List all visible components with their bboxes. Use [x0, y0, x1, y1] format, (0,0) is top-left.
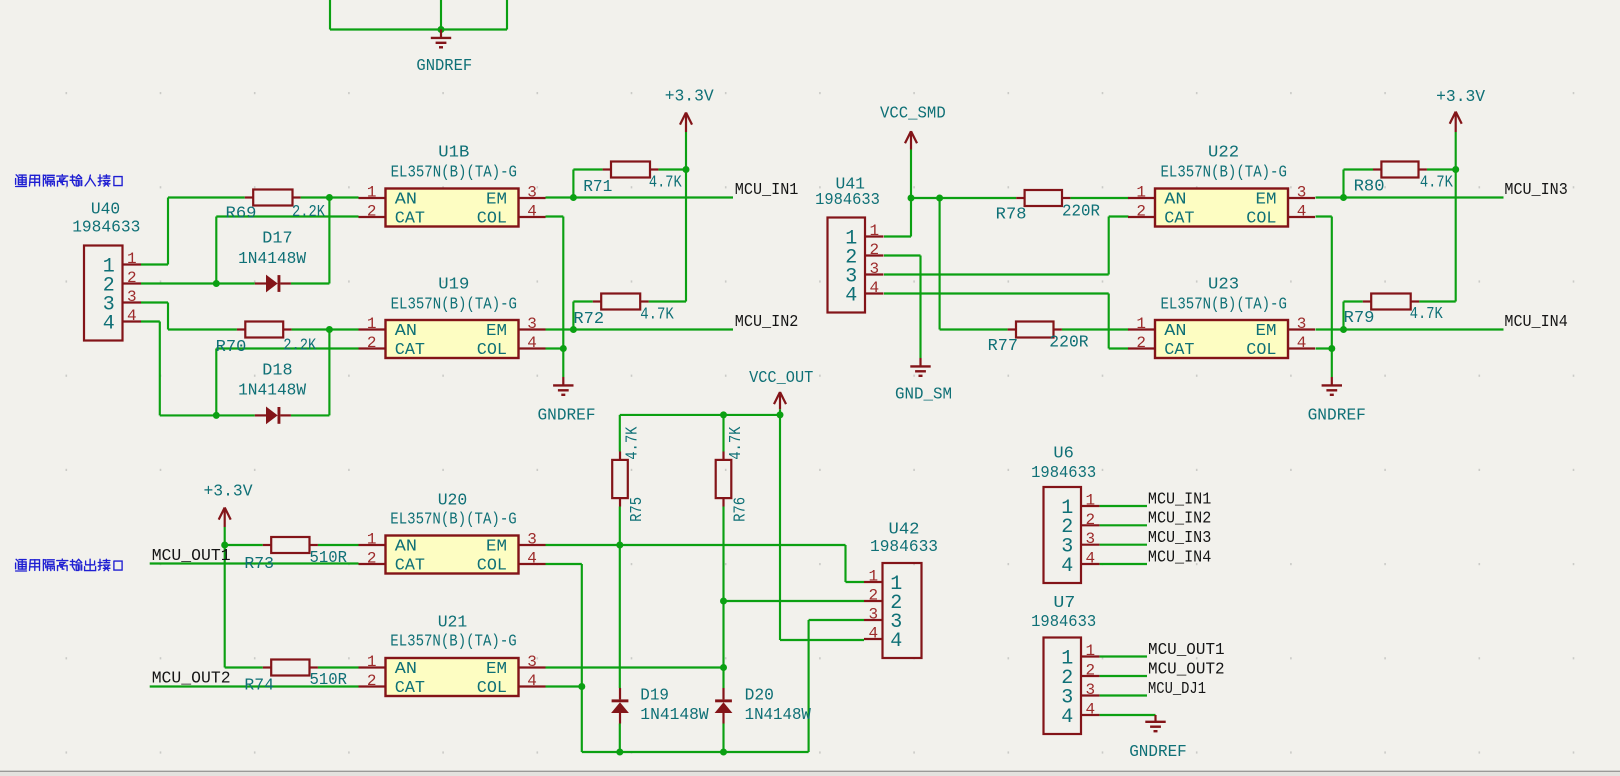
- svg-text:COL: COL: [477, 340, 507, 359]
- svg-text:4: 4: [103, 312, 115, 335]
- svg-text:GNDREF: GNDREF: [416, 56, 472, 75]
- svg-text:GNDREF: GNDREF: [1129, 742, 1187, 761]
- svg-text:R80: R80: [1354, 176, 1385, 195]
- svg-text:4: 4: [868, 625, 878, 643]
- svg-text:2: 2: [868, 587, 878, 605]
- svg-text:2: 2: [367, 550, 377, 568]
- svg-text:1: 1: [1136, 184, 1146, 202]
- svg-text:R76: R76: [731, 497, 750, 522]
- svg-text:R75: R75: [627, 497, 646, 522]
- svg-text:1984633: 1984633: [72, 217, 140, 236]
- svg-text:EM: EM: [486, 321, 507, 340]
- svg-text:3: 3: [527, 653, 537, 671]
- svg-text:2: 2: [869, 241, 879, 259]
- svg-text:EM: EM: [486, 190, 507, 209]
- svg-text:1N4148W: 1N4148W: [640, 705, 708, 724]
- svg-text:MCU_IN3: MCU_IN3: [1504, 180, 1567, 199]
- svg-text:2: 2: [1085, 511, 1095, 529]
- svg-text:3: 3: [869, 260, 879, 278]
- svg-text:510R: 510R: [310, 670, 348, 689]
- svg-text:R72: R72: [573, 309, 604, 328]
- svg-text:CAT: CAT: [395, 209, 425, 228]
- svg-text:4.7K: 4.7K: [649, 173, 682, 192]
- svg-text:4: 4: [1297, 334, 1307, 352]
- svg-text:2: 2: [367, 203, 377, 221]
- svg-text:U7: U7: [1053, 593, 1075, 612]
- svg-text:1: 1: [1136, 315, 1146, 333]
- svg-text:CAT: CAT: [395, 556, 425, 575]
- svg-text:EL357N(B)(TA)-G: EL357N(B)(TA)-G: [1161, 162, 1287, 181]
- svg-text:MCU_OUT1: MCU_OUT1: [1148, 640, 1225, 659]
- svg-text:EM: EM: [1256, 190, 1277, 209]
- svg-text:D18: D18: [262, 360, 292, 379]
- svg-text:3: 3: [527, 531, 537, 549]
- svg-text:1: 1: [127, 250, 137, 268]
- svg-text:4: 4: [527, 334, 537, 352]
- svg-text:U20: U20: [438, 490, 468, 509]
- svg-text:MCU_IN2: MCU_IN2: [735, 312, 799, 331]
- svg-text:COL: COL: [477, 556, 507, 575]
- svg-text:MCU_IN1: MCU_IN1: [1148, 489, 1211, 508]
- svg-text:COL: COL: [477, 209, 507, 228]
- svg-text:4: 4: [1061, 555, 1073, 578]
- svg-text:AN: AN: [395, 659, 417, 678]
- svg-text:2.2K: 2.2K: [283, 335, 316, 354]
- svg-text:1N4148W: 1N4148W: [238, 249, 306, 268]
- svg-text:3: 3: [1297, 184, 1307, 202]
- svg-text:AN: AN: [395, 190, 417, 209]
- svg-text:1: 1: [869, 222, 879, 240]
- svg-text:3: 3: [527, 315, 537, 333]
- svg-text:220R: 220R: [1062, 201, 1100, 220]
- svg-text:EM: EM: [486, 537, 507, 556]
- svg-text:4: 4: [845, 284, 857, 307]
- svg-text:1: 1: [1085, 492, 1095, 510]
- svg-text:CAT: CAT: [1164, 209, 1194, 228]
- svg-text:GNDREF: GNDREF: [538, 405, 596, 424]
- svg-text:510R: 510R: [310, 548, 348, 567]
- svg-text:GNDREF: GNDREF: [1308, 405, 1366, 424]
- svg-text:4: 4: [527, 550, 537, 568]
- svg-text:AN: AN: [1164, 321, 1186, 340]
- svg-text:4: 4: [127, 307, 137, 325]
- svg-text:AN: AN: [395, 537, 417, 556]
- svg-text:EL357N(B)(TA)-G: EL357N(B)(TA)-G: [1161, 295, 1287, 314]
- svg-text:R74: R74: [244, 675, 274, 694]
- svg-text:COL: COL: [1246, 209, 1276, 228]
- svg-text:MCU_IN1: MCU_IN1: [735, 180, 799, 199]
- svg-text:2: 2: [127, 269, 137, 287]
- svg-text:R69: R69: [226, 204, 257, 223]
- svg-text:R78: R78: [996, 204, 1027, 223]
- svg-text:D17: D17: [262, 228, 292, 247]
- svg-text:2: 2: [1085, 662, 1095, 680]
- svg-text:AN: AN: [1164, 190, 1186, 209]
- svg-text:4: 4: [1061, 706, 1073, 729]
- svg-text:+3.3V: +3.3V: [665, 87, 714, 106]
- svg-text:R71: R71: [583, 177, 612, 196]
- svg-text:4: 4: [890, 630, 902, 653]
- svg-text:4: 4: [527, 203, 537, 221]
- svg-text:EM: EM: [1256, 321, 1277, 340]
- svg-text:1N4148W: 1N4148W: [238, 381, 306, 400]
- svg-text:4.7K: 4.7K: [1420, 173, 1453, 192]
- svg-text:D20: D20: [745, 686, 774, 705]
- svg-text:U23: U23: [1208, 274, 1239, 293]
- svg-text:3: 3: [127, 288, 137, 306]
- svg-text:CAT: CAT: [395, 678, 425, 697]
- svg-text:4.7K: 4.7K: [640, 304, 674, 323]
- svg-text:U40: U40: [91, 199, 120, 218]
- svg-text:1N4148W: 1N4148W: [745, 705, 811, 724]
- svg-text:3: 3: [1085, 530, 1095, 548]
- svg-text:VCC_OUT: VCC_OUT: [749, 368, 813, 387]
- svg-text:U1B: U1B: [438, 142, 469, 161]
- svg-text:MCU_IN3: MCU_IN3: [1148, 528, 1211, 547]
- svg-text:COL: COL: [1246, 340, 1276, 359]
- svg-text:EL357N(B)(TA)-G: EL357N(B)(TA)-G: [390, 510, 516, 529]
- svg-text:CAT: CAT: [395, 340, 425, 359]
- svg-text:R79: R79: [1344, 308, 1375, 327]
- svg-text:D19: D19: [640, 686, 669, 705]
- svg-text:4: 4: [1297, 203, 1307, 221]
- svg-text:+3.3V: +3.3V: [1436, 87, 1485, 106]
- svg-text:1: 1: [367, 315, 377, 333]
- svg-text:4.7K: 4.7K: [623, 426, 642, 459]
- svg-text:COL: COL: [477, 678, 507, 697]
- svg-text:MCU_DJ1: MCU_DJ1: [1148, 679, 1206, 698]
- svg-text:U19: U19: [438, 274, 469, 293]
- svg-text:1: 1: [868, 568, 878, 586]
- svg-text:1984633: 1984633: [1031, 463, 1096, 482]
- svg-text:1: 1: [367, 653, 377, 671]
- svg-text:MCU_IN2: MCU_IN2: [1148, 509, 1211, 528]
- svg-text:U21: U21: [438, 613, 468, 632]
- svg-text:MCU_IN4: MCU_IN4: [1148, 547, 1211, 566]
- svg-text:2.2K: 2.2K: [292, 202, 325, 221]
- svg-text:R70: R70: [216, 337, 247, 356]
- svg-text:MCU_OUT2: MCU_OUT2: [1148, 660, 1225, 679]
- svg-text:1: 1: [367, 531, 377, 549]
- svg-text:3: 3: [527, 184, 537, 202]
- svg-text:EL357N(B)(TA)-G: EL357N(B)(TA)-G: [390, 631, 516, 650]
- svg-text:4: 4: [1085, 701, 1095, 719]
- svg-text:2: 2: [367, 672, 377, 690]
- svg-text:EM: EM: [486, 659, 507, 678]
- svg-text:R77: R77: [988, 336, 1018, 355]
- svg-text:1984633: 1984633: [870, 537, 938, 556]
- svg-text:3: 3: [868, 606, 878, 624]
- svg-text:3: 3: [1297, 315, 1307, 333]
- svg-text:1: 1: [367, 184, 377, 202]
- svg-text:3: 3: [1085, 681, 1095, 699]
- svg-text:4.7K: 4.7K: [1410, 304, 1443, 323]
- svg-text:R73: R73: [244, 554, 274, 573]
- svg-text:AN: AN: [395, 321, 417, 340]
- svg-text:220R: 220R: [1049, 333, 1088, 352]
- svg-text:EL357N(B)(TA)-G: EL357N(B)(TA)-G: [391, 162, 517, 181]
- svg-text:4.7K: 4.7K: [726, 426, 745, 459]
- svg-text:2: 2: [367, 334, 377, 352]
- svg-text:+3.3V: +3.3V: [204, 482, 253, 501]
- svg-text:4: 4: [869, 279, 879, 297]
- svg-text:4: 4: [1085, 550, 1095, 568]
- svg-text:1: 1: [1085, 642, 1095, 660]
- svg-text:GND_SM: GND_SM: [895, 385, 952, 404]
- svg-text:MCU_OUT1: MCU_OUT1: [152, 546, 231, 565]
- svg-text:U6: U6: [1053, 444, 1074, 463]
- svg-text:1984633: 1984633: [815, 190, 880, 209]
- svg-text:CAT: CAT: [1164, 340, 1194, 359]
- svg-text:2: 2: [1136, 203, 1146, 221]
- svg-text:EL357N(B)(TA)-G: EL357N(B)(TA)-G: [391, 295, 517, 314]
- svg-text:4: 4: [527, 672, 537, 690]
- svg-text:2: 2: [1136, 334, 1146, 352]
- svg-text:MCU_IN4: MCU_IN4: [1504, 312, 1567, 331]
- svg-text:U22: U22: [1208, 142, 1239, 161]
- svg-text:U42: U42: [889, 520, 920, 539]
- svg-text:MCU_OUT2: MCU_OUT2: [152, 669, 231, 688]
- svg-text:1984633: 1984633: [1031, 612, 1096, 631]
- svg-text:VCC_SMD: VCC_SMD: [880, 104, 946, 123]
